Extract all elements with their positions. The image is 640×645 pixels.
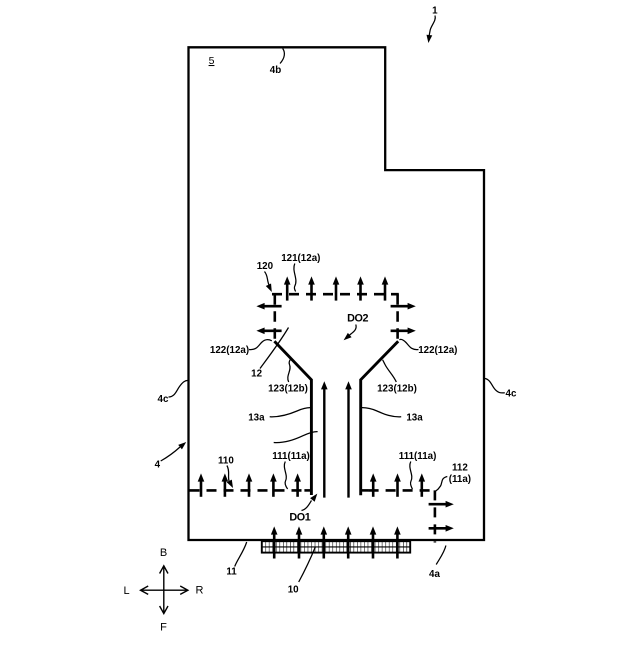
airflow arrows through outlet 122(12a) left [256,303,281,334]
svg-text:110: 110 [218,455,234,466]
label 110 with leader arrow [218,455,236,489]
svg-text:4c: 4c [506,388,517,399]
svg-text:4: 4 [155,459,161,470]
duct wall 123(12b)/13a left [274,341,311,495]
airflow arrows through opening 112 [429,501,454,532]
airflow arrows through outlet 122(12a) right [391,303,416,334]
svg-text:5: 5 [209,55,215,67]
label 13a left with leader [248,408,311,424]
svg-text:F: F [160,621,167,633]
svg-text:L: L [123,585,129,597]
label DO2 with leader arrow [342,313,369,343]
label 13a right with leader [361,408,423,424]
svg-text:4a: 4a [429,569,440,580]
label 4 with leader arrow [155,440,188,471]
label 111(11a) right with leader [399,451,437,489]
label 122(12a) right with leader [399,339,457,356]
svg-text:B: B [160,547,167,559]
label 122(12a) left with leader [210,340,272,356]
svg-text:111(11a): 111(11a) [272,451,310,462]
svg-text:4b: 4b [270,65,281,76]
duct wall 123(12b)/13a right [361,341,399,495]
airflow arrows through outlet 121(12a) [284,276,388,300]
svg-text:121(12a): 121(12a) [281,253,320,264]
svg-text:123(12b): 123(12b) [268,384,308,395]
label 120 with leader arrow [257,261,275,293]
svg-text:112: 112 [452,463,468,474]
svg-text:1: 1 [432,6,438,17]
duct airflow long arrows DO1->DO2 [321,381,352,497]
svg-text:(11a): (11a) [449,474,471,485]
airflow arrows 110 region (left inlet) [198,473,301,496]
label 4a with leader [429,546,446,580]
svg-text:123(12b): 123(12b) [377,384,417,395]
dashed inlet opening line 11a (left) [190,489,305,492]
label 4c right with leader [484,378,517,399]
airflow arrows through grate 10 [271,526,401,558]
svg-text:12: 12 [251,369,262,380]
label 121(12a) with leader [281,253,320,292]
duct wall left foot [304,489,311,492]
svg-text:122(12a): 122(12a) [418,345,457,356]
duct wall right foot [361,489,369,492]
airflow arrows (right inlet) [370,473,425,496]
label 10 with leader [288,547,316,595]
label 4b with leader [270,49,285,77]
label 4c left with leader [158,380,189,405]
svg-text:11: 11 [226,566,237,577]
intake grate 10 (hatched) [262,541,410,552]
svg-text:R: R [196,585,204,597]
dashed outlet line 121(12a) top [272,293,399,296]
svg-text:13a: 13a [406,413,423,424]
label 12 with leader [251,328,288,380]
label DO1 with leader arrow [289,492,319,523]
dashed opening 112 (vertical) [434,490,437,542]
svg-text:4c: 4c [158,394,169,405]
housing outline (walls 4b top, 4c sides, 4a bottom) [189,47,485,540]
svg-text:122(12a): 122(12a) [210,345,249,356]
label 123(12b) left with leader [268,360,308,395]
label 123(12b) right with leader [377,360,417,395]
svg-text:111(11a): 111(11a) [399,451,437,462]
dashed outlet line 122(12a) right vertical [396,294,399,341]
label 111(11a) left with leader [272,451,310,489]
svg-text:13a: 13a [248,413,265,424]
label 11 with leader [226,542,246,577]
dashed inlet opening line 11a (right) [369,489,436,492]
dashed outlet line 122(12a) left vertical [273,294,276,341]
svg-text:120: 120 [257,261,274,272]
leader into duct 11a (left) [274,432,318,443]
svg-text:DO2: DO2 [347,313,368,325]
svg-text:10: 10 [288,584,299,595]
svg-text:DO1: DO1 [289,511,310,523]
label 112 (11a) with leader [436,463,471,492]
label 1 with leader arrow [426,6,439,44]
orientation compass (B/F/L/R) [141,566,188,614]
